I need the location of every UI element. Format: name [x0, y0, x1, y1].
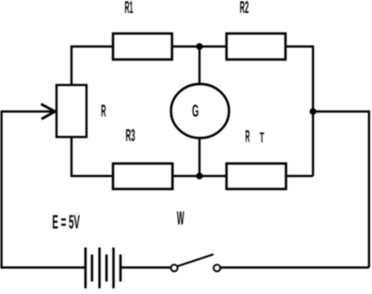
- battery E plates: [86, 248, 121, 289]
- wire pot bottom lead: [72, 137, 114, 176]
- wire top rail R1 to R2: [172, 45, 227, 47]
- node right junction: [310, 108, 317, 115]
- resistor RT: [227, 164, 287, 190]
- potentiometer R body: [57, 85, 87, 137]
- wire switch to bottom right: [221, 266, 370, 268]
- galvanometer G: [171, 84, 229, 138]
- svg-text:R3: R3: [126, 126, 136, 145]
- wire R2 right to corner and down: [286, 47, 314, 177]
- wire bottom left from outer loop to battery: [1, 266, 85, 268]
- wire battery to switch: [122, 266, 171, 268]
- resistor R3: [113, 164, 173, 190]
- label R T: [245, 127, 264, 147]
- wire G bottom lead: [198, 138, 200, 176]
- svg-text:R1: R1: [125, 0, 134, 17]
- switch W right terminal: [214, 265, 221, 272]
- svg-text:R2: R2: [240, 0, 249, 17]
- svg-text:E = 5V: E = 5V: [52, 211, 80, 233]
- svg-text:R: R: [245, 127, 250, 146]
- wire RT right to right vertical: [286, 175, 313, 177]
- wire G top lead: [198, 47, 200, 86]
- potentiometer wiper arrowhead: [41, 104, 57, 119]
- switch W left terminal: [171, 265, 178, 272]
- wire bottom rail R3 to RT: [173, 175, 227, 177]
- node bottom junction: [196, 173, 203, 180]
- svg-text:W: W: [177, 209, 184, 230]
- svg-text:G: G: [192, 102, 199, 121]
- resistor R1: [113, 34, 172, 60]
- resistor R2: [227, 34, 286, 60]
- switch blade: [177, 254, 213, 266]
- svg-text:R: R: [101, 102, 106, 121]
- node top junction: [196, 43, 203, 50]
- wire right junction to outer right vertical: [313, 112, 369, 268]
- wire left vertical outer: [0, 112, 2, 268]
- wire arrow horizontal to potentiometer: [1, 110, 54, 112]
- wire pot top lead: [72, 47, 114, 86]
- svg-text:T: T: [260, 130, 264, 146]
